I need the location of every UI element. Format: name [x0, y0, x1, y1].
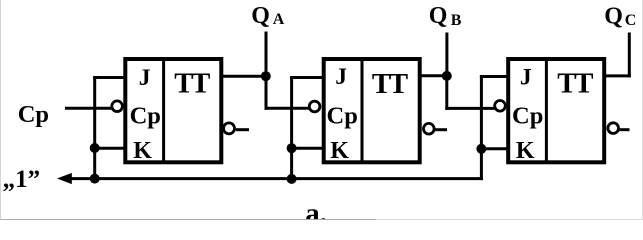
U2 K input wire — [290, 147, 323, 150]
svg-text:TT: TT — [174, 67, 210, 99]
U1 section divider — [162, 59, 165, 162]
QA to U2 clock wire (vertical) — [265, 76, 268, 110]
U1 clock inversion bubble — [112, 101, 123, 112]
svg-text:B: B — [451, 12, 462, 29]
svg-text:K: K — [133, 138, 152, 164]
U1 inverted output stub wire — [236, 128, 249, 131]
svg-text:A: A — [273, 11, 285, 28]
U2 Q output wire — [421, 74, 447, 77]
U3 inverted output stub wire — [619, 128, 630, 131]
U3 J-K tie wire (vertical) — [480, 75, 483, 180]
U3 K input wire — [480, 147, 510, 150]
svg-text:K: K — [330, 138, 349, 164]
scan edge shading left — [0, 0, 2, 220]
U2 K junction dot — [287, 143, 297, 153]
svg-text:Cp: Cp — [512, 102, 543, 129]
svg-text:C: C — [625, 12, 637, 29]
svg-text:Q: Q — [251, 3, 270, 29]
QB to U3 clock wire (horizontal) — [445, 107, 494, 110]
scan edge shading bottom (darker left part) — [0, 219, 376, 221]
svg-text:TT: TT — [557, 68, 593, 100]
svg-text:Q: Q — [429, 3, 448, 29]
svg-text:K: K — [516, 138, 535, 164]
svg-text:Cp: Cp — [130, 102, 161, 129]
node QB junction dot — [442, 71, 452, 81]
U2 inverted output stub wire — [435, 128, 447, 131]
svg-text:TT: TT — [372, 68, 408, 100]
scan edge shading bottom (lighter right part) — [376, 219, 643, 221]
JK flip-flop U1 (TT) box — [125, 59, 221, 162]
U1 inverted output bubble — [224, 123, 235, 134]
U2 tie to bus junction dot — [287, 174, 297, 184]
JK flip-flop U3 (TT) box — [508, 59, 604, 162]
U3 K junction dot — [476, 144, 486, 154]
U2 J input wire — [290, 76, 323, 79]
U3 inverted output bubble — [608, 123, 619, 134]
QB label lead wire — [445, 33, 448, 76]
U2 clock inversion bubble — [309, 101, 320, 112]
U3 section divider — [545, 59, 548, 162]
Cp input wire from label — [65, 107, 112, 110]
U2 J-K tie wire (vertical) — [290, 76, 293, 179]
svg-text:J: J — [139, 65, 151, 91]
U1 tie to bus junction dot — [90, 174, 100, 184]
U3 clock inversion bubble — [495, 101, 506, 112]
svg-text:Q: Q — [604, 4, 623, 30]
QB to U3 clock wire (vertical) — [445, 76, 448, 110]
U3 Q output wire — [606, 74, 631, 77]
JK flip-flop U2 (TT) box — [324, 59, 420, 162]
U2 inverted output bubble — [424, 123, 435, 134]
svg-text:Cp: Cp — [327, 102, 358, 129]
U1 K input wire — [93, 147, 125, 150]
node QA junction dot — [261, 71, 271, 81]
scan edge shading right — [642, 0, 643, 220]
logic "1" bus wire — [70, 177, 483, 180]
U1 J-K tie wire (vertical) — [93, 76, 96, 179]
QC label lead wire — [628, 33, 631, 78]
U1 J input wire — [93, 76, 125, 79]
QA label lead wire — [265, 32, 268, 77]
svg-text:Cp: Cp — [18, 101, 49, 128]
svg-text:a.: a. — [305, 198, 327, 221]
svg-text:J: J — [520, 65, 532, 91]
U2 section divider — [361, 59, 364, 162]
logic "1" bus arrowhead — [57, 173, 72, 184]
U1 K junction dot — [90, 143, 100, 153]
U3 J input wire — [480, 75, 510, 78]
svg-text:J: J — [335, 64, 347, 90]
U1 Q output wire — [222, 75, 266, 78]
svg-text:„1”: „1” — [3, 166, 41, 193]
QA to U2 clock wire (horizontal) — [265, 107, 310, 110]
